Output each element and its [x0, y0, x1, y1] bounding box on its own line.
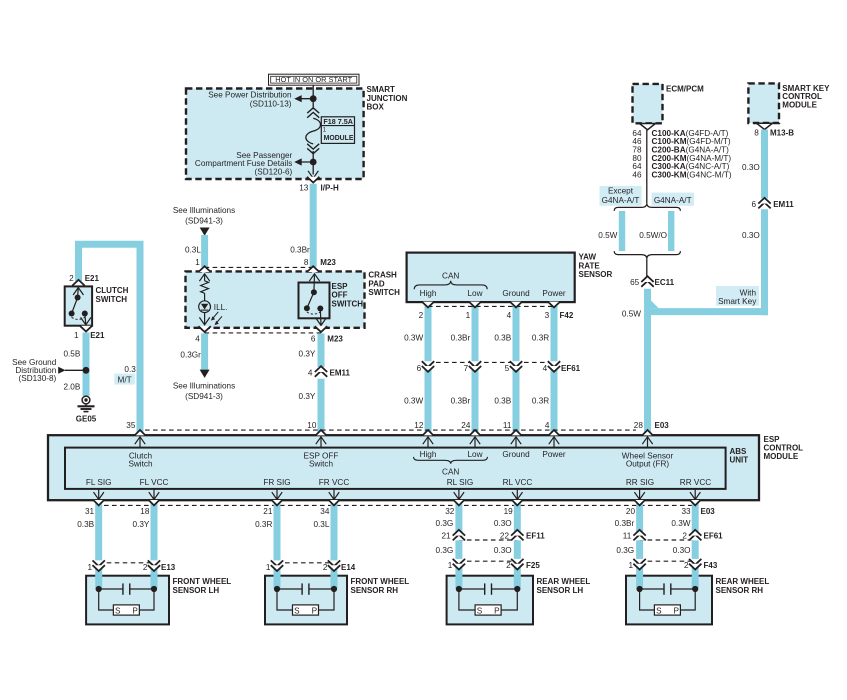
- svg-text:0.3O: 0.3O: [742, 163, 760, 172]
- ECM/PCM output connector V: [640, 124, 656, 130]
- ABS top pin 10: [307, 421, 326, 448]
- except G4NA-A/T variant label: [600, 186, 642, 206]
- svg-text:M13-B: M13-B: [770, 128, 794, 137]
- svg-text:Except: Except: [608, 187, 634, 196]
- svg-text:33: 33: [681, 507, 691, 516]
- ABS top pin 11: [503, 421, 522, 448]
- svg-text:11: 11: [503, 421, 512, 430]
- svg-text:0.3Br: 0.3Br: [451, 396, 471, 405]
- svg-text:See Power Distribution: See Power Distribution: [208, 91, 292, 100]
- svg-text:RR VCC: RR VCC: [680, 478, 711, 487]
- svg-text:0.3W: 0.3W: [404, 334, 423, 343]
- connector F42 label: [560, 311, 574, 320]
- svg-text:20: 20: [626, 507, 636, 516]
- svg-text:CRASH: CRASH: [368, 271, 397, 280]
- wire 0.3W ABS pin 33 to EF61 pin 2: [671, 501, 695, 589]
- svg-text:2: 2: [143, 563, 148, 572]
- svg-text:F42: F42: [560, 311, 574, 320]
- svg-text:ESP: ESP: [764, 435, 781, 444]
- svg-text:6: 6: [311, 335, 316, 344]
- wire 0.3R yaw rate sensor 554: [551, 302, 558, 435]
- svg-text:8: 8: [754, 128, 759, 137]
- ESP OFF switch: [299, 274, 364, 326]
- svg-text:0.3R: 0.3R: [532, 396, 549, 405]
- svg-text:6: 6: [417, 364, 422, 373]
- svg-text:G4NA-A/T: G4NA-A/T: [654, 196, 692, 205]
- svg-text:46: 46: [632, 170, 642, 179]
- svg-text:M23: M23: [327, 335, 343, 344]
- svg-text:(SD130-8): (SD130-8): [19, 374, 57, 383]
- svg-text:0.3G: 0.3G: [616, 546, 634, 555]
- ABS internal bottom labels: [86, 478, 711, 487]
- svg-text:S: S: [294, 607, 300, 616]
- svg-text:SMART: SMART: [367, 85, 396, 94]
- smart key control module: [748, 83, 830, 123]
- wire merge to EC11: [646, 259, 648, 277]
- fuse holder bottom contact: [307, 144, 319, 154]
- svg-text:FRONT WHEEL: FRONT WHEEL: [173, 577, 232, 586]
- connector E14 pin 2: [323, 560, 356, 571]
- branch merge brace: [614, 251, 680, 259]
- connector E13 dashed link: [99, 562, 154, 564]
- connector M23 pin 1: [195, 258, 211, 272]
- svg-text:SENSOR: SENSOR: [579, 270, 613, 279]
- svg-text:0.3R: 0.3R: [255, 520, 272, 529]
- svg-text:YAW: YAW: [579, 253, 597, 262]
- svg-text:2: 2: [682, 532, 687, 541]
- svg-text:4: 4: [545, 421, 550, 430]
- svg-text:E21: E21: [85, 274, 100, 283]
- svg-text:EM11: EM11: [773, 200, 794, 209]
- rear wheel sensor LH: [447, 576, 591, 625]
- connector E14 dashed link: [277, 562, 334, 564]
- svg-text:Switch: Switch: [309, 459, 334, 468]
- connector EF61 pin 2: [682, 530, 723, 541]
- svg-text:2: 2: [506, 561, 511, 570]
- ground GE05: [76, 396, 97, 423]
- connector E21 pin 1: [74, 326, 105, 340]
- rear wheel sensor RH: [626, 576, 769, 625]
- connector EF11 pin 21: [441, 530, 465, 541]
- svg-text:PAD: PAD: [368, 279, 385, 288]
- svg-text:0.3B: 0.3B: [77, 520, 94, 529]
- connector E14 pin 1: [266, 560, 283, 571]
- see power distribution reference arrow: [208, 91, 301, 109]
- wire ECM/PCM to branch: [646, 130, 648, 204]
- svg-text:Power: Power: [542, 450, 565, 459]
- hot in on or start supply banner: [269, 74, 360, 85]
- svg-text:2.0B: 2.0B: [63, 383, 80, 392]
- branch split brace: [614, 203, 680, 211]
- svg-text:1: 1: [74, 331, 79, 340]
- svg-text:EM11: EM11: [330, 368, 351, 377]
- rear wheel sensor RH pickup and S-P element: [637, 583, 699, 615]
- svg-text:Output (FR): Output (FR): [626, 459, 669, 468]
- svg-text:0.5W/O: 0.5W/O: [639, 231, 667, 240]
- svg-text:FR VCC: FR VCC: [319, 478, 350, 487]
- ABS bottom pin 34: [320, 489, 339, 516]
- wire 0.3W yaw rate sensor 428: [425, 302, 432, 435]
- connector F42 dashed link: [428, 305, 554, 307]
- svg-text:18: 18: [140, 507, 150, 516]
- svg-text:21: 21: [441, 532, 451, 541]
- svg-text:EF61: EF61: [704, 532, 724, 541]
- svg-text:0.3W: 0.3W: [671, 519, 690, 528]
- connector E03 dashed link (ABS top): [145, 429, 636, 431]
- connector F25 pin 1: [448, 559, 465, 570]
- svg-text:M23: M23: [320, 258, 336, 267]
- wire 0.3Y EM11 to ABS pin 10: [299, 379, 321, 435]
- front wheel sensor RH pickup and S-P element: [274, 583, 337, 615]
- connector EM11 pin 6: [751, 198, 794, 209]
- svg-text:(SD110-13): (SD110-13): [250, 100, 292, 109]
- svg-text:7: 7: [464, 364, 469, 373]
- svg-text:FR SIG: FR SIG: [263, 478, 290, 487]
- svg-text:4: 4: [507, 311, 512, 320]
- connector F43 dashed link: [640, 560, 696, 562]
- connector EF11 pin 22: [500, 530, 545, 541]
- svg-text:5: 5: [505, 364, 510, 373]
- connector M23 (bottom) dashed link: [205, 332, 321, 334]
- svg-text:E13: E13: [161, 563, 176, 572]
- svg-text:0.3Br: 0.3Br: [290, 245, 310, 254]
- svg-text:FL VCC: FL VCC: [140, 478, 169, 487]
- crash pad switch module box: [186, 271, 401, 328]
- connector E03 label (top): [655, 421, 670, 430]
- svg-text:0.3: 0.3: [124, 365, 136, 374]
- connector E13 pin 1: [88, 560, 105, 571]
- svg-text:1: 1: [88, 563, 93, 572]
- svg-text:0.3Br: 0.3Br: [451, 334, 471, 343]
- front wheel sensor LH: [86, 576, 231, 625]
- svg-text:Ground: Ground: [502, 289, 530, 298]
- svg-text:MODULE: MODULE: [764, 452, 799, 461]
- svg-text:0.3Y: 0.3Y: [299, 392, 316, 401]
- ABS bottom pin 21: [263, 489, 282, 516]
- svg-text:0.3Y: 0.3Y: [299, 350, 316, 359]
- svg-text:EF61: EF61: [561, 364, 581, 373]
- svg-text:P: P: [673, 607, 679, 616]
- svg-text:ILL.: ILL.: [214, 303, 228, 312]
- connector F25 dashed link: [459, 560, 517, 562]
- svg-text:0.3L: 0.3L: [313, 520, 329, 529]
- connector E13 pin 2: [143, 560, 176, 571]
- svg-text:4: 4: [195, 335, 200, 344]
- svg-text:High: High: [420, 450, 437, 459]
- connector F43 pin 1: [628, 559, 645, 570]
- ABS internal top labels: [128, 450, 673, 476]
- front wheel sensor RH: [265, 576, 409, 625]
- svg-text:8: 8: [304, 258, 309, 267]
- svg-text:Smart Key: Smart Key: [718, 297, 757, 306]
- svg-text:1: 1: [628, 561, 633, 570]
- svg-text:SWITCH: SWITCH: [368, 288, 400, 297]
- svg-text:M/T: M/T: [118, 375, 132, 384]
- svg-text:See Illuminations: See Illuminations: [173, 382, 235, 391]
- ABS bottom pin 31: [85, 489, 104, 516]
- wire 0.3G ABS pin 32 to EF11 pin 21: [436, 501, 459, 589]
- wire 0.3G EF11 to F25 pin 1: [436, 546, 454, 555]
- connector I/P-H pin 13: [299, 177, 339, 193]
- svg-text:ESP: ESP: [332, 282, 349, 291]
- svg-text:2: 2: [69, 274, 74, 283]
- wire 2.0B label: [63, 383, 80, 392]
- see illuminations (top) reference: [173, 206, 235, 236]
- svg-text:(SD941-3): (SD941-3): [185, 392, 223, 401]
- svg-text:Switch: Switch: [128, 459, 153, 468]
- connector M23 pin 6: [311, 326, 344, 343]
- connector E21 pin 2: [69, 274, 99, 286]
- connector F42 pin 4: [507, 302, 523, 320]
- front wheel sensor LH pickup and S-P element: [96, 583, 157, 615]
- connector EF61 dashed link (yaw): [428, 361, 554, 363]
- ABS bottom pin 32: [445, 489, 464, 516]
- ECM/PCM module: [633, 84, 705, 123]
- connector M23 pin 4: [195, 326, 211, 343]
- svg-text:2: 2: [419, 311, 424, 320]
- fuse F18 7.5A MODULE: [306, 117, 355, 144]
- ABS bottom pin 18: [140, 489, 159, 516]
- smart junction box: [186, 85, 408, 179]
- svg-text:22: 22: [500, 532, 510, 541]
- wire 0.3Br yaw rate sensor 475: [472, 302, 479, 435]
- G4NA-A/T variant label: [652, 193, 695, 206]
- svg-text:1: 1: [266, 563, 271, 572]
- svg-text:3: 3: [545, 311, 550, 320]
- connector EF61 pin 11: [623, 530, 646, 541]
- connector F42 pin 2: [419, 302, 435, 320]
- svg-text:0.5B: 0.5B: [63, 349, 80, 358]
- svg-text:28: 28: [634, 421, 644, 430]
- svg-text:SENSOR LH: SENSOR LH: [537, 586, 584, 595]
- svg-text:I/P-H: I/P-H: [321, 184, 339, 193]
- svg-text:32: 32: [445, 507, 455, 516]
- svg-text:P: P: [494, 607, 500, 616]
- svg-text:S: S: [477, 607, 483, 616]
- wire 0.3G EF61 to F43 pin 1: [616, 546, 634, 555]
- wire clutch switch to ABS pin 35 (upper run): [79, 244, 141, 435]
- svg-text:E03: E03: [701, 507, 716, 516]
- wire 0.5B clutch switch to ground: [63, 333, 86, 397]
- wire 0.3L to illumination lamp: [185, 235, 205, 267]
- wire junction smart key to EC11 run: [648, 301, 769, 312]
- wire 0.3O ABS pin 19 to EF11 pin 22: [494, 501, 517, 589]
- svg-text:0.3O: 0.3O: [673, 546, 691, 555]
- svg-text:4: 4: [543, 364, 548, 373]
- ABS bottom pin 20: [626, 489, 645, 516]
- svg-text:REAR WHEEL: REAR WHEEL: [716, 577, 770, 586]
- svg-text:SENSOR RH: SENSOR RH: [716, 586, 764, 595]
- ECM connector pin list: [632, 129, 731, 180]
- svg-text:0.3O: 0.3O: [494, 546, 512, 555]
- connector EF61 pin 7: [464, 361, 482, 373]
- svg-text:13: 13: [299, 184, 309, 193]
- svg-text:SWITCH: SWITCH: [332, 299, 364, 308]
- with smart key variant label: [716, 286, 759, 306]
- svg-text:SWITCH: SWITCH: [96, 295, 128, 304]
- svg-text:1: 1: [466, 311, 471, 320]
- svg-text:EF11: EF11: [526, 532, 545, 541]
- wire 0.3 M/T label: [114, 365, 136, 385]
- svg-text:0.5W: 0.5W: [598, 231, 617, 240]
- wire to passenger fuse tap: [312, 151, 314, 175]
- connector E03 dashed link (ABS bottom): [104, 504, 697, 506]
- rear wheel sensor LH pickup and S-P element: [456, 583, 521, 615]
- svg-text:(SD941-3): (SD941-3): [185, 216, 223, 225]
- svg-text:FRONT WHEEL: FRONT WHEEL: [351, 577, 410, 586]
- connector EF11 dashed link: [459, 539, 517, 541]
- wire 0.5W (Except G4NA-A/T branch): [598, 211, 622, 251]
- svg-text:BOX: BOX: [367, 103, 385, 112]
- ABS top pin 24: [461, 421, 480, 448]
- svg-text:12: 12: [414, 421, 424, 430]
- wire from HOT IN ON OR START into junction box: [312, 85, 314, 99]
- svg-text:MODULE: MODULE: [324, 135, 354, 142]
- wire 0.3L ABS pin 34 to E14 pin 2: [313, 501, 334, 589]
- illumination lamp ILL with resistor: [199, 274, 228, 325]
- fuse holder top contact: [307, 108, 319, 118]
- svg-text:GE05: GE05: [76, 415, 97, 424]
- svg-text:0.3G: 0.3G: [436, 519, 454, 528]
- yaw rate sensor: [407, 253, 613, 303]
- svg-text:2: 2: [684, 561, 689, 570]
- node: ground distribution tap: [65, 367, 89, 374]
- yaw wire labels upper: [404, 334, 549, 343]
- svg-text:See Illuminations: See Illuminations: [173, 206, 235, 215]
- svg-text:G4NA-A/T: G4NA-A/T: [602, 196, 640, 205]
- ABS ESP control module box: [48, 435, 803, 500]
- connector EM11 pin 4: [308, 366, 351, 377]
- svg-text:F18 7.5A: F18 7.5A: [323, 117, 353, 126]
- svg-text:UNIT: UNIT: [730, 456, 749, 465]
- connector EF61 pin 5: [505, 361, 523, 373]
- yaw wire labels lower: [404, 396, 549, 405]
- connector EC11 pin 65: [630, 276, 675, 287]
- svg-text:31: 31: [85, 507, 95, 516]
- svg-text:RATE: RATE: [579, 261, 601, 270]
- wire 0.3Br ABS pin 20 to EF61 pin 11: [615, 501, 640, 589]
- svg-text:21: 21: [263, 507, 273, 516]
- svg-text:0.3W: 0.3W: [404, 396, 423, 405]
- wire 0.3Gr to see illuminations (bottom): [173, 333, 235, 401]
- svg-text:(SD120-6): (SD120-6): [255, 168, 293, 177]
- connector F42 pin 3: [545, 302, 561, 320]
- svg-text:Low: Low: [467, 289, 482, 298]
- svg-text:P: P: [312, 607, 318, 616]
- svg-text:Low: Low: [467, 450, 482, 459]
- svg-text:6: 6: [751, 200, 756, 209]
- svg-text:4: 4: [308, 368, 313, 377]
- svg-text:0.3Br: 0.3Br: [615, 519, 635, 528]
- svg-text:OFF: OFF: [332, 291, 348, 300]
- svg-text:0.3B: 0.3B: [494, 334, 511, 343]
- connector F25 pin 2: [506, 559, 540, 570]
- svg-text:CLUTCH: CLUTCH: [96, 286, 129, 295]
- svg-text:MODULE: MODULE: [782, 100, 817, 109]
- wire 0.3Y ABS pin 18 to E13 pin 2: [133, 501, 154, 589]
- svg-text:1: 1: [195, 258, 200, 267]
- svg-text:E14: E14: [341, 563, 356, 572]
- wire 0.3R ABS pin 21 to E14 pin 1: [255, 501, 277, 589]
- svg-text:0.3G: 0.3G: [436, 546, 454, 555]
- ABS bottom pin 19: [504, 489, 523, 516]
- svg-text:1: 1: [448, 561, 453, 570]
- wire 0.3O smart key to EM11: [742, 130, 764, 199]
- see ground distribution reference arrow: [12, 358, 65, 383]
- svg-text:0.3B: 0.3B: [494, 396, 511, 405]
- svg-text:JUNCTION: JUNCTION: [367, 94, 408, 103]
- connector M23 (top) dashed link: [205, 266, 314, 268]
- svg-text:E21: E21: [90, 331, 105, 340]
- ABS top pin 28: [634, 421, 653, 448]
- svg-text:E03: E03: [655, 421, 670, 430]
- wire 0.3O EF61 to F43 pin 2: [673, 546, 691, 555]
- svg-text:11: 11: [623, 532, 632, 541]
- svg-text:RL VCC: RL VCC: [503, 478, 533, 487]
- svg-text:0.3L: 0.3L: [185, 245, 201, 254]
- svg-text:REAR WHEEL: REAR WHEEL: [537, 577, 591, 586]
- svg-text:SENSOR LH: SENSOR LH: [173, 586, 220, 595]
- ABS top pin 35: [126, 421, 145, 448]
- svg-text:EC11: EC11: [655, 278, 675, 287]
- svg-text:Power: Power: [542, 289, 565, 298]
- svg-text:FL SIG: FL SIG: [86, 478, 112, 487]
- svg-text:0.3O: 0.3O: [494, 519, 512, 528]
- connector M23 pin 8: [304, 258, 337, 272]
- ABS top pin 4: [545, 421, 560, 448]
- connector EF61 label (yaw): [561, 364, 581, 373]
- svg-text:0.3O: 0.3O: [742, 231, 760, 240]
- junction box output arrow: [308, 171, 318, 178]
- svg-text:CONTROL: CONTROL: [764, 444, 804, 453]
- wire 0.3B ABS pin 31 to E13 pin 1: [77, 501, 98, 589]
- clutch switch: [65, 286, 129, 325]
- svg-text:0.3Gr: 0.3Gr: [180, 350, 201, 359]
- svg-text:S: S: [656, 607, 662, 616]
- svg-text:SENSOR RH: SENSOR RH: [351, 586, 399, 595]
- node: passenger compartment fuse tap: [296, 159, 317, 166]
- svg-text:19: 19: [504, 507, 514, 516]
- connector F43 pin 2: [684, 559, 718, 570]
- svg-text:65: 65: [630, 278, 640, 287]
- svg-text:34: 34: [320, 507, 330, 516]
- svg-text:35: 35: [126, 421, 136, 430]
- svg-text:S: S: [115, 607, 121, 616]
- svg-text:F43: F43: [704, 561, 718, 570]
- svg-text:0.3R: 0.3R: [532, 334, 549, 343]
- svg-text:HOT IN ON OR START: HOT IN ON OR START: [275, 75, 352, 84]
- wire 0.3Y ESP OFF switch to EM11: [299, 333, 321, 367]
- svg-text:2: 2: [323, 563, 328, 572]
- svg-text:Ground: Ground: [502, 450, 530, 459]
- connector E03 label (bottom): [701, 507, 716, 516]
- wire 0.3Br I/P-H to ESP OFF switch: [290, 184, 313, 267]
- svg-text:ECM/PCM: ECM/PCM: [666, 85, 704, 94]
- svg-text:24: 24: [461, 421, 471, 430]
- ABS top pin 12: [414, 421, 433, 448]
- wire 0.3O EF11 to F25 pin 2: [494, 546, 512, 555]
- connector EF61 pin 6: [417, 361, 435, 373]
- svg-text:P: P: [132, 607, 138, 616]
- smart key output connector V: [757, 123, 773, 129]
- svg-text:0.5W: 0.5W: [622, 309, 641, 318]
- svg-text:CAN: CAN: [442, 272, 459, 281]
- ABS bottom pin 33: [681, 489, 700, 516]
- connector EF61 dashed link (rear): [640, 539, 696, 541]
- svg-text:F25: F25: [526, 561, 540, 570]
- see passenger compartment fuse details arrow: [195, 151, 302, 176]
- svg-text:High: High: [420, 289, 437, 298]
